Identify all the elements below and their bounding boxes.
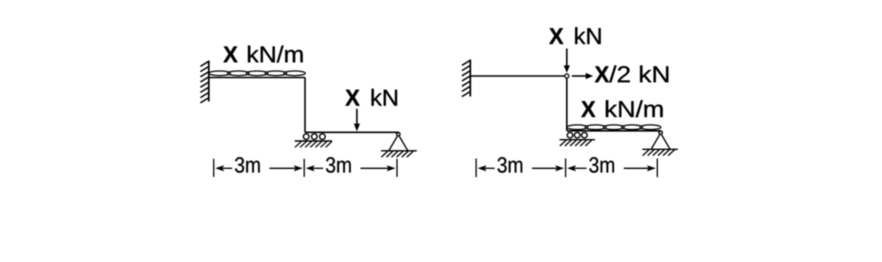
- roller support (left frame): [295, 134, 332, 148]
- fixed support wall (left frame): [200, 61, 209, 103]
- vertical column member (left frame): [304, 78, 306, 133]
- label X kN (left frame): [345, 90, 359, 106]
- pin support (right frame): [642, 131, 678, 156]
- dimension text 3m (span 2, right frame): [589, 157, 614, 173]
- lower beam (right frame): [567, 130, 661, 132]
- roller support (right frame): [560, 132, 596, 146]
- upper beam (right frame): [470, 75, 564, 77]
- dimension arrows span 2 (left frame): [306, 165, 396, 171]
- horizontal load arrow X/2 kN (right frame): [572, 73, 593, 79]
- distributed load coils X kN/m on lower beam (right frame): [567, 125, 661, 130]
- upper beam (left frame): [209, 77, 305, 79]
- dimension text 3m (span 1, left frame): [235, 157, 260, 173]
- label X kN/m (left frame): [223, 47, 237, 63]
- distributed load coils X kN/m on upper beam (left frame): [209, 71, 305, 76]
- vertical column member (right frame): [566, 78, 568, 131]
- dimension text 3m (span 1, right frame): [498, 157, 523, 173]
- label X kN (right frame): [549, 28, 563, 44]
- label X kN/m (right frame): [581, 101, 595, 117]
- dimension ticks (left frame): [214, 159, 397, 177]
- lower beam (left frame): [305, 131, 398, 133]
- dimension text 3m (span 2, left frame): [326, 157, 351, 173]
- label X/2 kN (right frame): [595, 66, 609, 82]
- fixed support wall (right frame): [462, 60, 471, 97]
- dimension ticks (right frame): [476, 159, 657, 178]
- node pin circle at beam end (right frame): [565, 74, 569, 78]
- dimension arrows span 2 (right frame): [567, 165, 656, 171]
- vertical load arrow X kN (right frame): [564, 49, 570, 73]
- point load arrow X kN (left frame): [354, 109, 360, 132]
- pin support (left frame): [381, 133, 417, 158]
- dimension arrows span 1 (left frame): [215, 165, 303, 171]
- dimension arrows span 1 (right frame): [478, 165, 564, 171]
